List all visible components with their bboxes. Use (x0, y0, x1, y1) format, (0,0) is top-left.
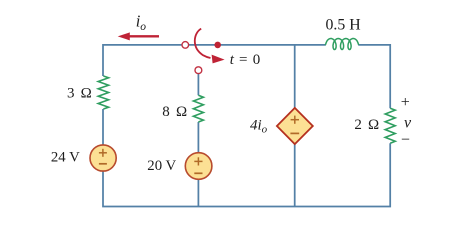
svg-text:24 V: 24 V (51, 149, 80, 165)
wire bottom rail (103, 143, 390, 206)
switch pivot dot (214, 42, 221, 49)
voltage source 20V (185, 153, 212, 180)
switch lower throw terminal (195, 67, 202, 74)
wire top-middle segment from switch to inductor (189, 44, 326, 46)
resistor 8 ohm (193, 95, 203, 122)
svg-text:−: − (401, 131, 410, 148)
switch open terminal on top wire (182, 42, 189, 49)
wire top-left segment (103, 45, 182, 76)
inductor 0.5 H (325, 39, 359, 50)
wire dependent-source branch lower (294, 144, 296, 207)
wire dependent-source branch upper (294, 45, 296, 109)
current arrow io (128, 35, 159, 37)
svg-text:2 Ω: 2 Ω (354, 117, 379, 133)
wire top-right segment from inductor to right corner (358, 45, 390, 108)
svg-text:4io: 4io (250, 117, 268, 135)
svg-text:8 Ω: 8 Ω (162, 104, 187, 120)
resistor 2 ohm (385, 108, 395, 143)
wire left branch between 3-ohm resistor and 24V source (102, 109, 104, 145)
svg-text:t=0: t=0 (230, 52, 260, 68)
svg-text:io: io (136, 12, 147, 33)
resistor 3 ohm (98, 76, 108, 109)
wire switch lower throw to 8-ohm resistor (197, 73, 199, 95)
dependent source 4io diamond (277, 108, 313, 144)
svg-text:v: v (404, 114, 412, 131)
svg-text:+: + (401, 94, 410, 111)
wire 20V source to bottom rail (197, 179, 199, 206)
switch motion arc (195, 29, 211, 58)
svg-text:3 Ω: 3 Ω (67, 86, 92, 102)
svg-text:0.5 H: 0.5 H (326, 17, 361, 34)
svg-text:20 V: 20 V (147, 158, 176, 174)
wire between 8-ohm resistor and 20V source (197, 122, 199, 153)
voltage source 24V (90, 145, 116, 171)
